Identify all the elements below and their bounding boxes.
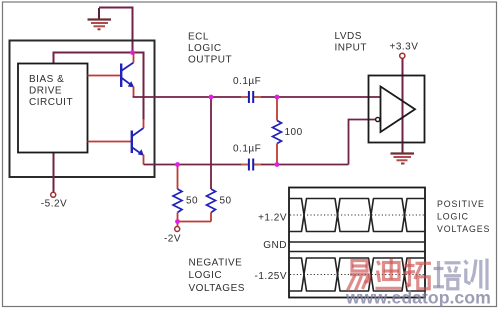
buffer triangle U1: [381, 87, 416, 133]
wire ground GND1 to node A: [99, 8, 133, 53]
GND level line (lower): [289, 251, 425, 253]
svg-text:ECL: ECL: [188, 32, 209, 43]
terminal -5.2V: [51, 192, 56, 197]
transistor Q2: [132, 119, 144, 165]
waveform trace lower band B: [289, 258, 425, 291]
wire node A to Q2 collector: [133, 53, 144, 121]
svg-text:-2V: -2V: [164, 234, 181, 245]
label LVDS INPUT: [335, 31, 368, 54]
wire base of Q2: [88, 141, 132, 143]
block BIAS & DRIVE CIRCUIT: [18, 64, 88, 153]
svg-text:-1.25V: -1.25V: [255, 271, 287, 282]
watermark char 1: [348, 261, 370, 291]
junction R1 bottom / -2V: [175, 219, 180, 224]
ground GND2 (below U1): [391, 143, 415, 164]
wire R1/R2 bottoms to -2V terminal: [178, 222, 212, 227]
svg-text:OUTPUT: OUTPUT: [188, 55, 232, 66]
transistor Q1: [121, 53, 134, 98]
wire base of Q1: [88, 75, 121, 77]
svg-text:+1.2V: +1.2V: [258, 213, 287, 224]
svg-text:50: 50: [186, 196, 198, 207]
svg-text:VOLTAGES: VOLTAGES: [189, 283, 245, 294]
waveform trace upper band B: [289, 199, 425, 232]
junction upper rail / R2: [209, 95, 214, 100]
svg-text:www.edatop.com: www.edatop.com: [345, 288, 491, 308]
svg-text:CIRCUIT: CIRCUIT: [29, 97, 73, 108]
label POSITIVE LOGIC VOLTAGES: [437, 199, 490, 234]
wire node A to bias circuit top: [54, 53, 133, 64]
GND level line (upper): [289, 241, 425, 243]
terminal -2V: [175, 227, 180, 232]
watermark char 4: [433, 261, 461, 289]
svg-text:100: 100: [285, 127, 303, 138]
wire upper rail to R2: [210, 97, 212, 189]
junction upper rail / R3: [275, 95, 280, 100]
label ECL LOGIC OUTPUT: [188, 32, 232, 66]
svg-text:LOGIC: LOGIC: [437, 212, 469, 222]
outer box (ECL driver block): [10, 41, 155, 178]
svg-text:GND: GND: [263, 240, 287, 251]
wire lower ECL output rail: [144, 164, 349, 166]
svg-text:0.1µF: 0.1µF: [233, 144, 261, 155]
dotted reference line -1.25V: [290, 274, 425, 276]
svg-text:50: 50: [220, 196, 232, 207]
wire bias circuit to -5.2V terminal: [53, 153, 55, 193]
inverting input bubble: [376, 117, 380, 121]
waveform trace lower band A: [289, 258, 425, 291]
junction lower rail / R3: [275, 162, 280, 167]
label NEGATIVE LOGIC VOLTAGES: [189, 258, 245, 294]
capacitor C1: [248, 91, 254, 103]
ground GND1 (top left): [88, 8, 112, 29]
svg-text:-5.2V: -5.2V: [41, 199, 67, 210]
svg-text:+3.3V: +3.3V: [390, 42, 419, 53]
svg-text:DRIVE: DRIVE: [29, 86, 62, 97]
svg-text:LOGIC: LOGIC: [188, 43, 222, 54]
resistor R1 (50 ohm): [173, 165, 182, 222]
svg-text:POSITIVE: POSITIVE: [437, 199, 485, 209]
junction lower rail / R1: [175, 162, 180, 167]
waveform trace upper band A: [289, 199, 425, 232]
svg-text:0.1µF: 0.1µF: [233, 76, 261, 87]
dotted reference line +1.2V: [290, 214, 425, 216]
watermark char 5: [465, 259, 488, 291]
svg-text:LVDS: LVDS: [335, 31, 362, 42]
svg-text:INPUT: INPUT: [335, 43, 368, 54]
svg-text:LOGIC: LOGIC: [189, 270, 223, 281]
resistor R3 (100 ohm): [273, 97, 282, 165]
LVDS receiver box U1: [369, 76, 425, 143]
waveform box: [289, 188, 425, 298]
svg-text:VOLTAGES: VOLTAGES: [437, 224, 490, 234]
terminal +3.3V: [400, 53, 405, 58]
resistor R2 (50 ohm): [207, 189, 216, 222]
wire upper ECL output rail: [133, 96, 381, 98]
wire lower rail to inverting input of U1: [349, 120, 376, 165]
svg-text:NEGATIVE: NEGATIVE: [189, 258, 243, 269]
watermark char 3: [404, 259, 431, 289]
svg-text:BIAS &: BIAS &: [29, 74, 64, 85]
watermark char 2: [376, 259, 402, 289]
capacitor C2: [248, 159, 254, 171]
node A junction: [130, 50, 135, 55]
wire +3.3V supply through U1 to ground: [402, 59, 404, 143]
